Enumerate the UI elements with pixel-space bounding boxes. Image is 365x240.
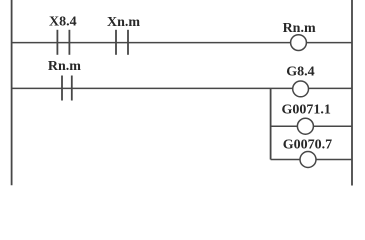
svg-text:G0071.1: G0071.1 <box>282 103 331 118</box>
svg-text:G8.4: G8.4 <box>286 64 314 79</box>
svg-text:X8.4: X8.4 <box>49 15 77 30</box>
svg-text:Rn.m: Rn.m <box>48 59 81 74</box>
svg-text:G0070.7: G0070.7 <box>283 137 332 152</box>
svg-text:Xn.m: Xn.m <box>107 15 140 30</box>
svg-text:Rn.m: Rn.m <box>283 21 316 36</box>
